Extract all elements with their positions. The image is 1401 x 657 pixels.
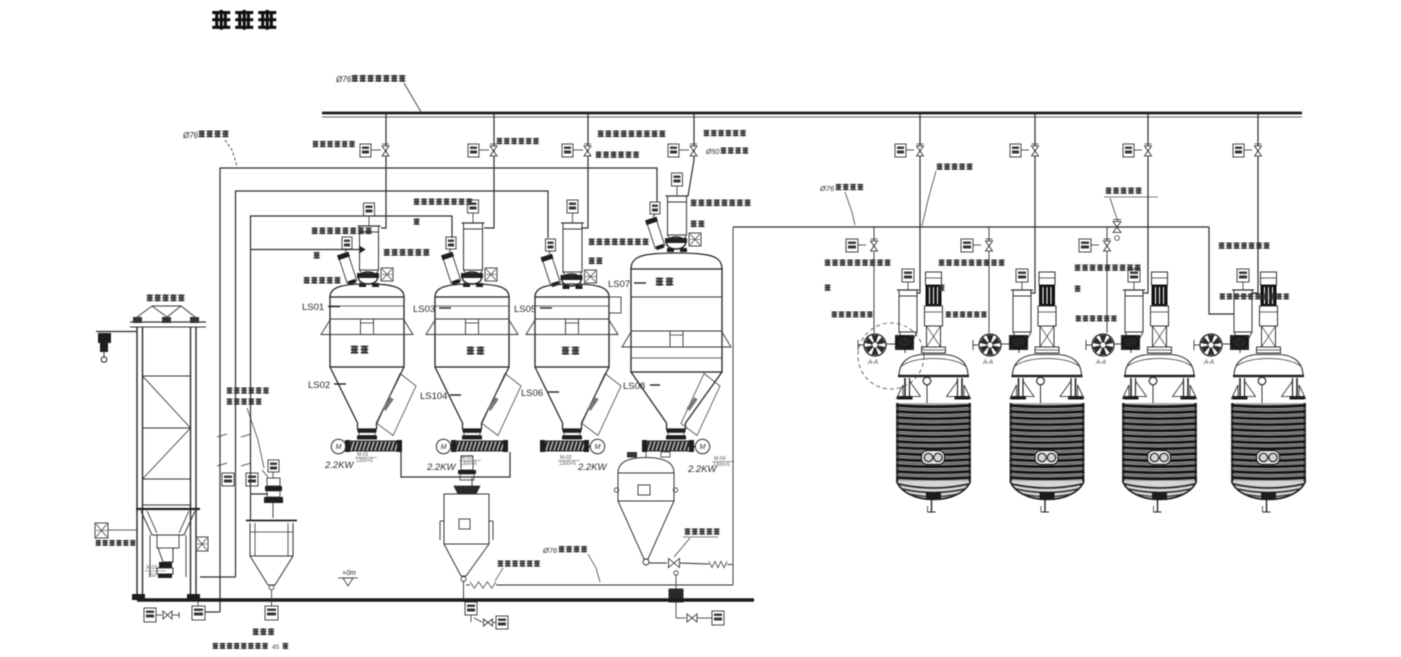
- svg-text:1300×5: 1300×5: [356, 458, 373, 464]
- vacuum feeder cylinder silo 1: [360, 226, 379, 270]
- rotary feeder R4: [1230, 335, 1249, 350]
- label text block 2 R1: [825, 284, 831, 291]
- rotary valve silo 1: [358, 429, 377, 433]
- label 对夹式蝶阀 right: [1106, 187, 1112, 194]
- mount flange R2: [1035, 347, 1059, 353]
- title 流程图: [212, 10, 230, 30]
- ground line: [137, 598, 754, 601]
- bag filter inlet stack: [461, 456, 473, 470]
- svg-text:1300×5: 1300×5: [713, 462, 730, 468]
- silo 1 body: [330, 297, 404, 367]
- svg-text:LS01: LS01: [302, 302, 324, 313]
- silo 4 cone: [631, 372, 722, 429]
- silo 2 dome: [435, 284, 509, 297]
- butterfly valve on drop s2: [490, 146, 497, 151]
- rotary valve silo 4: [667, 429, 686, 433]
- svg-text:A-A: A-A: [867, 360, 878, 366]
- svg-text:Ø76: Ø76: [819, 184, 835, 193]
- bus wire 4 branch to silo1 collector: [251, 249, 361, 251]
- svg-text:M: M: [336, 444, 342, 451]
- instrument box on bus wire 2: [222, 473, 234, 486]
- svg-text:Ø50: Ø50: [705, 149, 719, 156]
- charge cylinder R2: [1013, 290, 1031, 332]
- column ties and braces: [143, 375, 191, 377]
- gearbox R4: [1260, 306, 1278, 326]
- reactor legs R3: [1130, 378, 1132, 397]
- vacuum drop wire R1: [918, 114, 921, 293]
- bus wire 3 to silo2 collector: [251, 216, 453, 520]
- charge cylinder R3: [1125, 290, 1143, 332]
- svg-text:A-A: A-A: [1095, 360, 1106, 366]
- label 吨袋卸料站: [147, 294, 153, 301]
- tick marks: [217, 463, 227, 466]
- coil jacket R2: [1010, 403, 1084, 481]
- vacuum valve R1: [917, 146, 924, 151]
- reactor bottom head R4: [1232, 481, 1306, 500]
- label text block 3 R4: [1220, 293, 1226, 299]
- sieve feeder box: [268, 460, 279, 472]
- leader wire: [225, 140, 237, 166]
- agitator motor R2: [1039, 272, 1055, 285]
- bottom valve R1: [926, 492, 941, 500]
- conveying pump R4: [1200, 334, 1222, 356]
- mount flange R3: [1148, 347, 1172, 353]
- silo 1 number label: [351, 345, 359, 353]
- silo 4 number label: [656, 277, 664, 285]
- label 4个2位2阀组 bottom: [213, 643, 219, 649]
- silo 2 inlet fittings: [461, 273, 483, 278]
- silo 3 body: [535, 297, 609, 367]
- silo 3 inlet fittings: [561, 275, 583, 280]
- conveying pump R3: [1092, 334, 1114, 356]
- dome nozzle R4: [1258, 377, 1266, 385]
- vacuum drop wire R3: [1144, 114, 1149, 293]
- collector valve box silo 3: [546, 239, 556, 251]
- sieve feeder stack: [267, 478, 280, 486]
- silo 2 support wings: [426, 320, 435, 335]
- charge filter box R4: [1237, 269, 1249, 282]
- gearbox R3: [1151, 306, 1169, 326]
- label 1个3位3阀组带两个 silo3: [589, 238, 595, 245]
- svg-text:Ø76: Ø76: [542, 546, 558, 555]
- hoist monorail arm: [96, 331, 137, 333]
- reactor dome R4: [1234, 355, 1303, 377]
- svg-text:A-A: A-A: [1203, 360, 1214, 366]
- svg-text:Ø76: Ø76: [182, 131, 199, 140]
- cyclone cone: [618, 501, 674, 559]
- coil jacket R1: [897, 403, 971, 481]
- conveying pump R1: [864, 334, 886, 356]
- motor silo 1: [331, 439, 345, 453]
- bypass chute silo 3: [582, 374, 621, 436]
- sieve hopper cone: [250, 556, 293, 585]
- label 1个3位3阀组带两个 silo1: [312, 227, 318, 234]
- dome nozzle R3: [1149, 377, 1157, 385]
- sight glasses R2: [1035, 451, 1058, 465]
- agitator motor R3: [1152, 272, 1168, 285]
- charge cylinder R4: [1234, 290, 1252, 332]
- small dust collector silo 4: [645, 217, 666, 251]
- bypass chute silo 1: [377, 374, 416, 436]
- x-box left of station: [95, 523, 108, 538]
- silo 1 cone: [330, 367, 404, 429]
- svg-text:LS03: LS03: [413, 304, 435, 315]
- screw conveyor silo 1: [346, 441, 401, 452]
- reactor bottom head R3: [1123, 481, 1197, 500]
- conveying pump R2: [979, 334, 1001, 356]
- vacuum drop wire to silo s3: [582, 114, 588, 228]
- label text block 2 R2: [939, 284, 945, 291]
- motor silo 3: [590, 439, 604, 453]
- silo 4 support wings: [622, 332, 631, 347]
- label 对夹式蝶阀 mid-left: [227, 398, 233, 405]
- x-box right of station: [196, 537, 208, 551]
- silo 1 dome: [330, 284, 404, 297]
- label 1个3位3阀组: [704, 130, 710, 137]
- label 1个3位3阀组带两个 silo4: [691, 199, 697, 206]
- column base pads: [132, 594, 145, 600]
- fine powder pipe with flex hose: [466, 584, 470, 586]
- svg-text:2.2KW: 2.2KW: [577, 462, 608, 473]
- vacuum drop wire R2: [1032, 114, 1036, 293]
- bag filter cone: [444, 544, 489, 576]
- bottom valve R2: [1040, 492, 1055, 500]
- bypass chute silo 4: [681, 374, 720, 436]
- vacuum valve R3: [1145, 146, 1152, 151]
- svg-text:LS08: LS08: [623, 381, 645, 392]
- label 小型除尘器: [304, 277, 310, 284]
- motor silo 2: [436, 439, 450, 453]
- vacuum drop wire R4: [1253, 114, 1259, 293]
- feed drop wire R1: [873, 227, 875, 333]
- label 反吹 silo3: [589, 257, 595, 264]
- vacuum drop wire to silo s1: [381, 114, 386, 228]
- mount flange R4: [1257, 347, 1281, 353]
- gearbox R2: [1038, 306, 1056, 326]
- vacuum feeder cylinder silo 3: [563, 223, 582, 272]
- svg-text:+0m: +0m: [342, 570, 356, 577]
- riser pipe to reactor header: [732, 227, 734, 585]
- label 钢丝胶管连接: [498, 560, 504, 567]
- leader wire mid-left: [247, 408, 264, 468]
- vacuum feeder cylinder silo 2: [464, 223, 483, 270]
- feeder filter box silo 1: [364, 203, 375, 216]
- valve box on drop s3: [562, 144, 573, 157]
- silo 2 body: [435, 297, 509, 367]
- cyclone inlet nozzles: [627, 452, 637, 458]
- x-box at silo 3 inlet: [585, 270, 597, 283]
- cyclone body: [618, 473, 674, 501]
- valve box on drop s1: [360, 144, 371, 157]
- instrument box under bag filter: [465, 602, 477, 615]
- collector valve box silo 4: [650, 202, 660, 214]
- silo 3 cone: [535, 367, 609, 429]
- svg-text:2.2KW: 2.2KW: [324, 460, 355, 471]
- valve box on drop R2: [1010, 144, 1021, 157]
- svg-text:LS06: LS06: [521, 388, 543, 399]
- reactor bottom head R2: [1010, 481, 1084, 500]
- svg-text:M: M: [441, 444, 447, 451]
- feed valve R1: [871, 241, 878, 246]
- valve box on drop s2: [468, 144, 479, 157]
- coil jacket R4: [1232, 403, 1306, 481]
- svg-text:45: 45: [272, 644, 280, 651]
- silo 2 number label: [467, 346, 475, 354]
- sieve drain: [271, 590, 273, 606]
- valve box on drop R1: [895, 144, 906, 157]
- feed valve box R1: [846, 239, 858, 252]
- label 吹 silo2: [414, 218, 420, 225]
- rotary valve silo 3: [563, 429, 582, 433]
- reactor bottom head R1: [897, 481, 971, 500]
- x-box at silo 2 inlet: [485, 268, 497, 281]
- feeder filter box silo 2: [468, 200, 479, 213]
- motor silo 4: [695, 439, 709, 453]
- label text block 2 R3: [1075, 285, 1081, 292]
- silo 3 dome: [535, 284, 609, 297]
- feed valve box R3: [1079, 239, 1091, 252]
- reactor dome R1: [899, 355, 968, 377]
- label 吹 silo1: [314, 252, 320, 259]
- silo 3 support wings: [526, 320, 535, 335]
- valve box on drop R4: [1233, 144, 1244, 157]
- label 1个2位2阀组 silo2 valve: [497, 138, 503, 145]
- vacuum valve R2: [1032, 146, 1039, 151]
- main vacuum header pipe: [322, 112, 1302, 115]
- svg-text:M: M: [595, 444, 601, 451]
- label 1个3位3阀组 mid-left: [227, 387, 233, 394]
- sight glasses R3: [1148, 451, 1171, 465]
- label text block 1 R2: [939, 259, 945, 266]
- silo 1 handhole: [361, 319, 374, 335]
- vacuum drop wire to silo s2: [484, 114, 494, 228]
- label 1个1位1阀组: [596, 151, 602, 158]
- silo 3 number label: [562, 346, 570, 354]
- cyclone discharge pipe: [649, 562, 667, 564]
- svg-text:1300×5: 1300×5: [460, 461, 477, 467]
- silo 4 inlet fittings: [665, 238, 687, 243]
- bag filter body: [444, 494, 489, 544]
- feeder filter box silo 3: [567, 200, 578, 213]
- mount flange R1: [922, 347, 946, 353]
- label 真空波纹管: [937, 163, 943, 170]
- svg-text:LS07: LS07: [608, 279, 630, 290]
- bus wire 1 to silo4 collector: [205, 611, 220, 613]
- silo 3 handhole: [566, 319, 579, 335]
- butterfly valve on drop s1: [382, 146, 389, 151]
- charge filter box R3: [1128, 269, 1140, 282]
- valve box on drop R3: [1123, 144, 1134, 157]
- bus wire 2 to silo3 collector: [200, 576, 236, 578]
- x-box at silo 4 inlet: [689, 233, 701, 246]
- label text block 3 R2: [946, 311, 952, 317]
- screw conveyor silo 2: [452, 441, 507, 452]
- svg-text:LS05: LS05: [514, 304, 536, 315]
- hoist trolley: [98, 333, 111, 343]
- agitator stand R4: [1262, 326, 1276, 347]
- dashed detail circle R1: [858, 323, 924, 389]
- small dust collector silo 1: [337, 252, 358, 286]
- label text block 3 R1: [832, 311, 838, 317]
- dome nozzle R2: [1037, 377, 1045, 385]
- agitator stand R2: [1040, 326, 1054, 347]
- feed valve R2: [986, 241, 993, 246]
- reactor dome R2: [1013, 355, 1082, 377]
- silo 4 dome: [631, 253, 722, 269]
- wire conveyor1 to bag filter header: [401, 452, 510, 477]
- label 反吹 silo4: [691, 220, 697, 227]
- rotary feeder R3: [1121, 335, 1140, 350]
- charge filter box R1: [902, 269, 914, 282]
- silo 2 cone: [435, 367, 509, 429]
- butterfly valve on header: [1113, 222, 1121, 228]
- valve box on drop s4: [668, 144, 679, 157]
- svg-text:LS104: LS104: [420, 391, 447, 402]
- cyclone drain leg: [674, 571, 678, 575]
- silo 2 handhole: [466, 319, 479, 335]
- svg-text:M: M: [700, 444, 706, 451]
- station drain boxes below ground: [144, 608, 156, 622]
- small dust collector silo 2: [441, 252, 462, 286]
- label 真空输送4阀组: [384, 249, 390, 256]
- svg-text:LS02: LS02: [308, 380, 330, 391]
- label text block 1 R3: [1075, 264, 1081, 271]
- silo 1 support wings: [321, 320, 330, 335]
- label text block 3 R3: [1076, 315, 1082, 321]
- svg-text:X-01: X-01: [146, 565, 158, 571]
- cyclone dome: [618, 458, 674, 474]
- reactor legs R1: [904, 378, 906, 397]
- bag filter drain wire: [463, 582, 465, 600]
- silo 4 handhole: [670, 331, 683, 347]
- svg-text:2.2KW: 2.2KW: [426, 462, 457, 473]
- feed valve R3: [1104, 241, 1111, 246]
- butterfly valve on drop s3: [584, 146, 591, 151]
- collector valve box silo 2: [446, 237, 456, 249]
- rotary valve silo 2: [463, 429, 482, 433]
- feed valve box R2: [961, 239, 973, 252]
- screw conveyor silo 4: [643, 441, 693, 452]
- charge cylinder R1: [899, 290, 917, 332]
- screw conveyor silo 3: [541, 441, 588, 452]
- collector valve box silo 1: [342, 237, 352, 249]
- bottom valve R4: [1261, 492, 1276, 500]
- sight glasses R4: [1257, 451, 1280, 465]
- bypass chute silo 2: [482, 374, 521, 436]
- sieve hopper body: [246, 520, 297, 522]
- station top beam: [130, 321, 206, 323]
- agitator stand R3: [1153, 326, 1167, 347]
- label 振料站: [253, 628, 259, 635]
- agitator stand R1: [927, 326, 941, 347]
- x-box at silo 1 inlet: [381, 268, 393, 281]
- reactor legs R2: [1018, 378, 1020, 397]
- bag dump hopper: [136, 508, 200, 510]
- coil jacket R3: [1123, 403, 1197, 481]
- dome nozzle R1: [923, 377, 931, 385]
- feed drop wire R3: [1106, 227, 1108, 333]
- butterfly valve on drop s4: [690, 146, 697, 151]
- label 对夹式蝶阀 at cyclone: [685, 528, 691, 535]
- svg-text:150: 150: [148, 573, 157, 579]
- svg-text:A-A: A-A: [982, 360, 993, 366]
- reactor feed header pipe: [733, 226, 1209, 228]
- station drain valve: [163, 611, 168, 619]
- agitator motor R1: [926, 272, 942, 285]
- rotary feeder R2: [1009, 335, 1028, 350]
- top truss braces: [137, 306, 167, 317]
- gearbox R1: [925, 306, 943, 326]
- agitator motor R4: [1261, 272, 1277, 285]
- instrument box on bus wire 3: [246, 473, 258, 486]
- vacuum valve R4: [1255, 146, 1262, 151]
- bottom valve R3: [1152, 492, 1167, 500]
- label text block 1 R4: [1219, 242, 1225, 249]
- label 1个3位3阀组带两个 silo2: [414, 198, 420, 205]
- reactor dome R3: [1125, 355, 1194, 377]
- rotary feeder R1: [895, 335, 914, 350]
- svg-text:1300×5: 1300×5: [559, 461, 576, 467]
- silo 1 inlet fittings: [357, 273, 379, 278]
- LS05 sensor pocket: [609, 297, 621, 313]
- station columns: [136, 327, 138, 599]
- charge filter box R2: [1016, 269, 1028, 282]
- drain valve set under bag filter: [470, 615, 472, 622]
- feeder filter box silo 4: [672, 173, 683, 186]
- drain valve set under cyclone: [676, 617, 686, 619]
- label 1个2位2阀组 silo1 valve: [313, 141, 319, 148]
- vacuum feeder cylinder silo 4: [668, 196, 687, 235]
- sight glasses R1: [922, 451, 945, 465]
- small dust collector silo 3: [541, 254, 562, 288]
- leader wire to main pipe: [404, 83, 421, 112]
- vacuum drop wire to silo s4: [688, 114, 694, 196]
- hopper discharge cone: [158, 548, 173, 562]
- feed drop wire R2: [988, 227, 990, 333]
- label 1个3位3阀组 station: [96, 540, 102, 546]
- silo 4 body: [631, 269, 722, 372]
- reactor legs R4: [1239, 378, 1241, 397]
- svg-text:Ø76: Ø76: [335, 75, 352, 84]
- butterfly valve at cyclone: [669, 559, 675, 568]
- label 50气动蝶阀 快装式连接: [598, 130, 604, 137]
- label text block 1 R1: [825, 259, 831, 266]
